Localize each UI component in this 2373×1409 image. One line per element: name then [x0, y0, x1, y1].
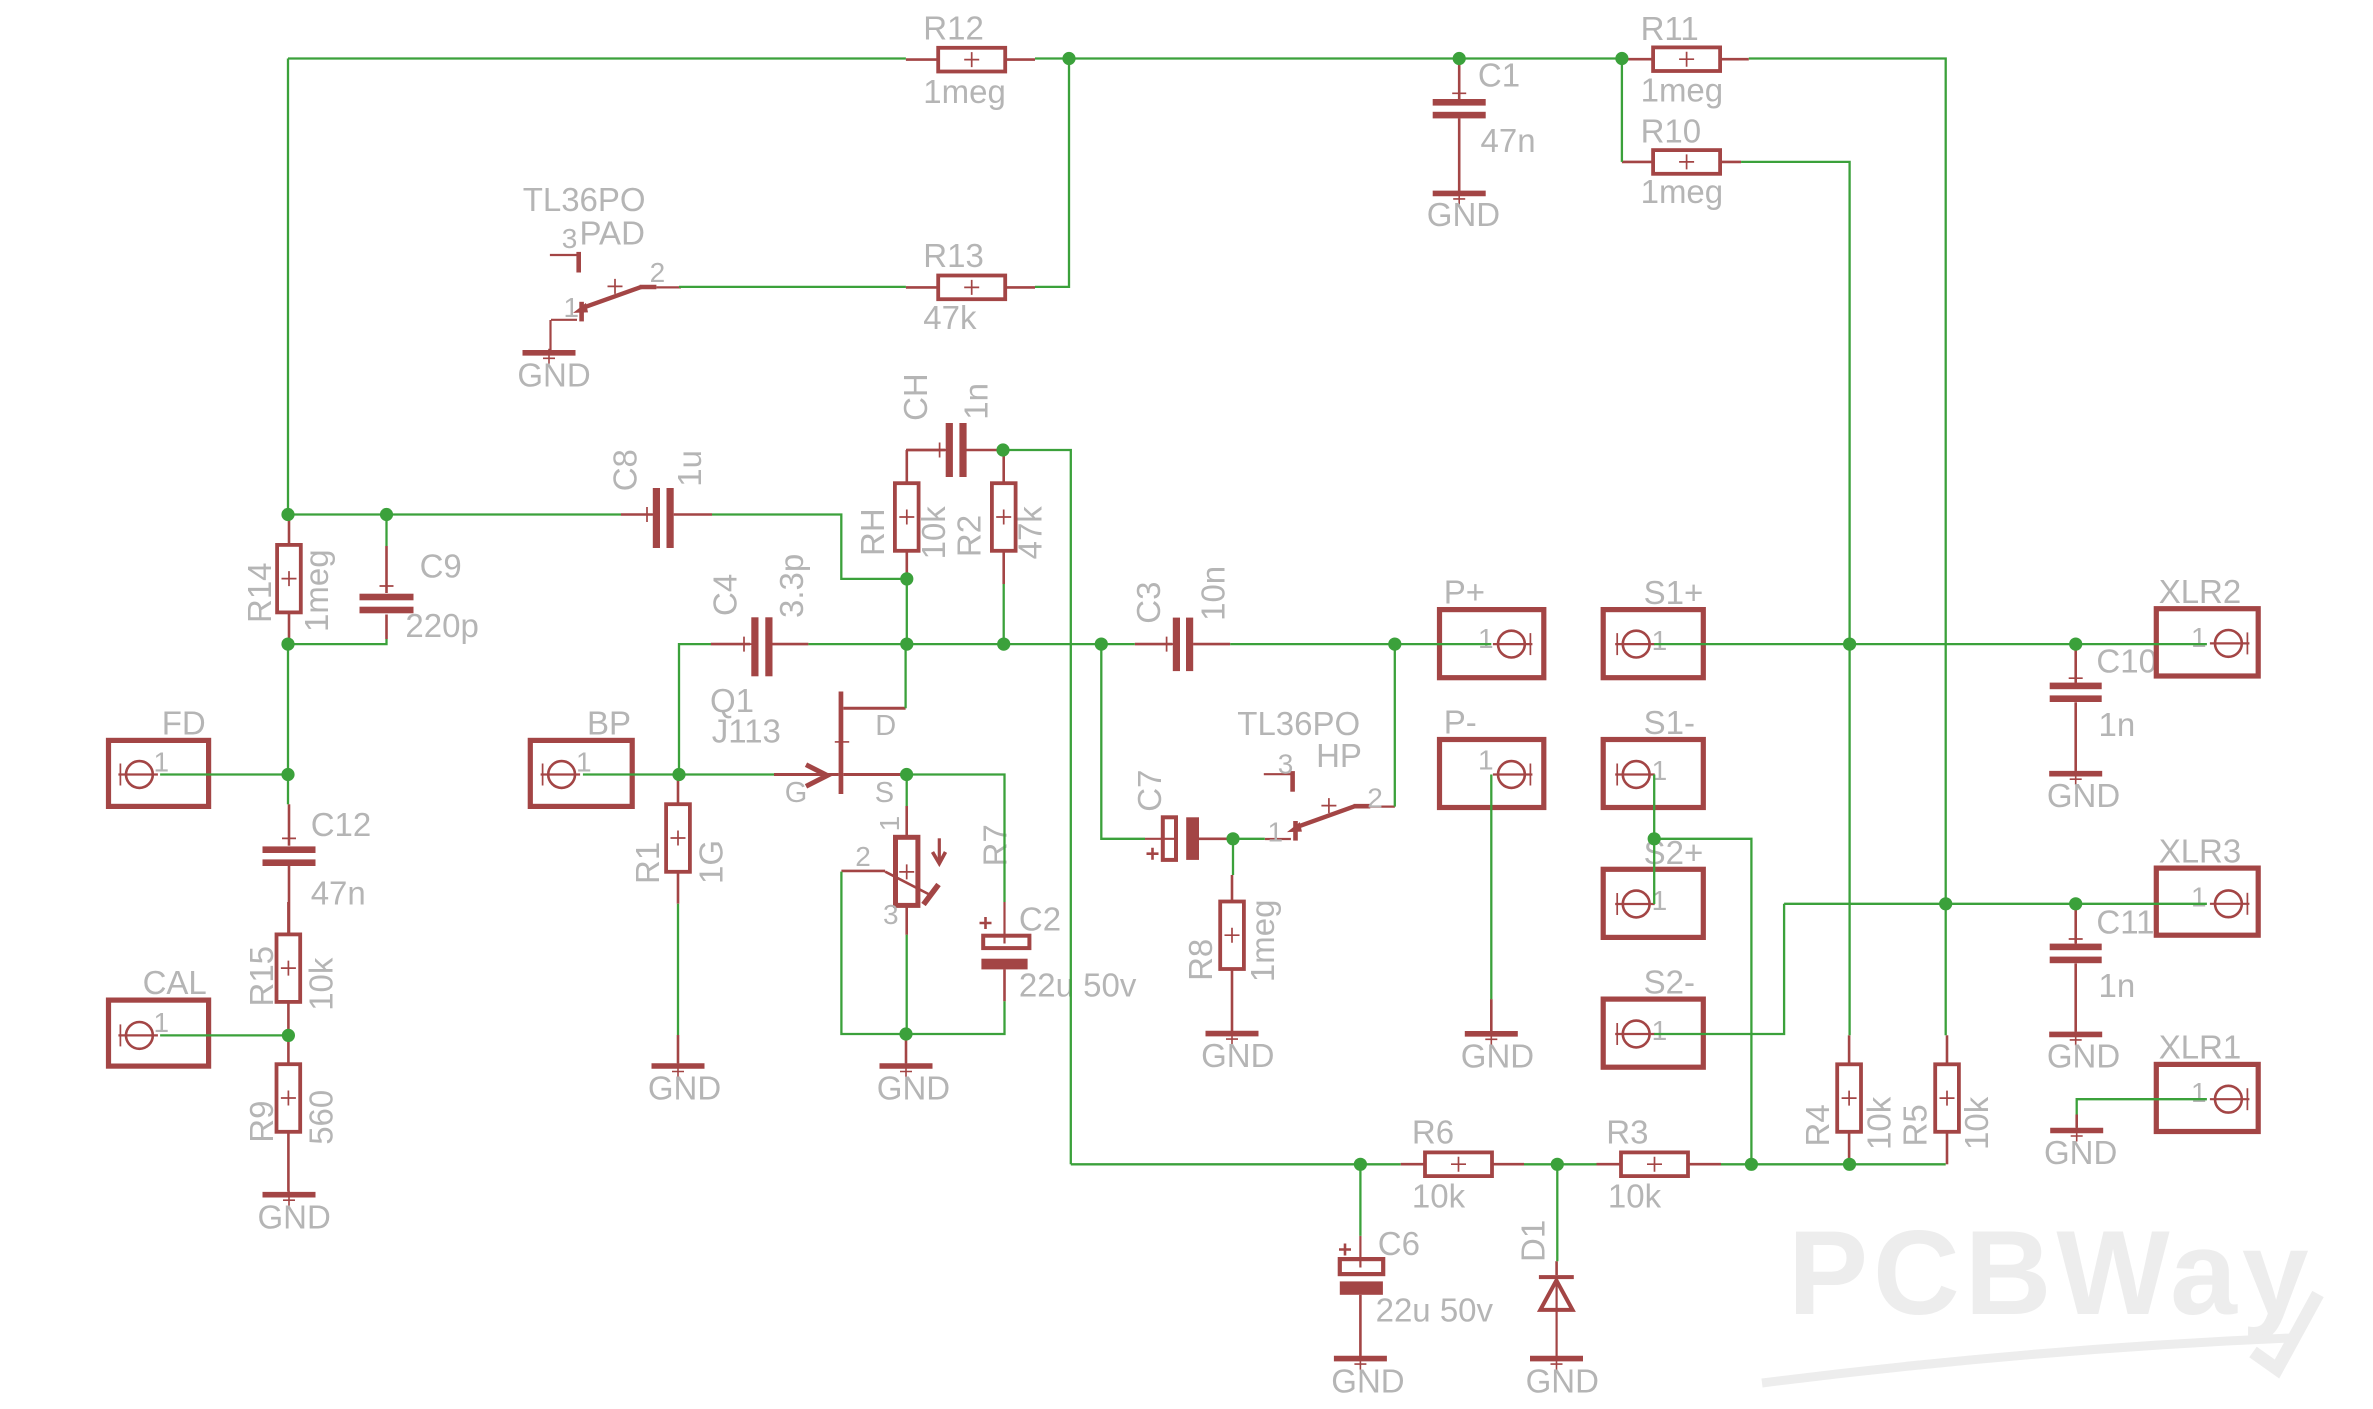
- lead RH pins: [905, 450, 908, 483]
- svg-text:3: 3: [1278, 749, 1294, 780]
- resistor R15: [277, 934, 301, 1002]
- capacitor C9: [360, 594, 414, 601]
- junction 23: [2069, 897, 2082, 910]
- lead R11 pins: [1623, 58, 1653, 61]
- pad XLR3: [2156, 868, 2258, 935]
- lead R3 pins: [1597, 1163, 1621, 1166]
- capacitor C3: [1173, 618, 1180, 672]
- wire R7 pin3 down: [906, 935, 908, 1034]
- svg-text:XLR3: XLR3: [2159, 832, 2242, 869]
- resistor R1: [666, 804, 690, 872]
- svg-text:R14: R14: [241, 562, 278, 623]
- svg-text:GND: GND: [2047, 1038, 2120, 1075]
- svg-text:C3: C3: [1130, 582, 1167, 624]
- svg-text:47n: 47n: [1481, 122, 1536, 159]
- capacitor C1: [1433, 99, 1486, 106]
- switch HP (TL36PO): [1264, 773, 1291, 775]
- svg-text:C12: C12: [311, 806, 372, 843]
- wire C9 top: [385, 515, 387, 547]
- wire FD junction down: [287, 775, 289, 805]
- resistor R10: [1653, 150, 1720, 174]
- svg-text:R1: R1: [629, 842, 666, 884]
- svg-text:GND: GND: [2044, 1134, 2117, 1171]
- wire R1 to ground: [677, 904, 679, 1035]
- capacitor CH: [946, 423, 953, 477]
- pad BP: [530, 740, 632, 806]
- svg-text:R3: R3: [1606, 1114, 1648, 1151]
- lead R7 pins: [905, 806, 908, 837]
- ground (C11): [2049, 1032, 2102, 1038]
- wire R11 right to XLR3 column: [1749, 59, 1946, 1036]
- svg-text:10k: 10k: [1412, 1178, 1466, 1215]
- svg-text:R7: R7: [977, 824, 1014, 866]
- svg-text:C11: C11: [2096, 903, 2154, 940]
- svg-text:C10: C10: [2096, 642, 2157, 679]
- svg-text:GND: GND: [877, 1070, 950, 1107]
- junction 18: [1226, 832, 1239, 845]
- svg-text:R8: R8: [1182, 939, 1219, 981]
- lead R9 pins: [287, 1037, 290, 1064]
- wire C7 to HP pin1: [1233, 838, 1265, 840]
- svg-text:C2: C2: [1019, 901, 1061, 938]
- svg-text:3: 3: [562, 223, 578, 254]
- ground (R8): [1206, 1031, 1259, 1037]
- junction 14: [996, 443, 1009, 456]
- svg-text:1: 1: [2191, 882, 2207, 913]
- junction 8: [282, 1029, 295, 1042]
- svg-text:GND: GND: [2047, 777, 2120, 814]
- svg-text:1: 1: [1268, 817, 1284, 848]
- resistor R12: [938, 48, 1005, 72]
- svg-text:G: G: [785, 777, 808, 809]
- svg-text:1meg: 1meg: [923, 73, 1006, 110]
- junction 20: [1843, 638, 1856, 651]
- switch PAD pin 1 to ground lead: [549, 320, 551, 351]
- ground (XLR1): [2050, 1128, 2103, 1134]
- svg-text:GND: GND: [1461, 1038, 1534, 1075]
- svg-text:FD: FD: [162, 704, 206, 741]
- wire junction to R13 column: [1035, 59, 1069, 287]
- svg-text:560: 560: [303, 1090, 340, 1145]
- pad XLR2: [2156, 609, 2258, 676]
- junction 11: [997, 638, 1010, 651]
- wire CH junction right and down: [1006, 450, 1071, 1164]
- junction 5: [380, 508, 393, 521]
- capacitor C11: [2050, 944, 2102, 951]
- wire D1 top: [1556, 1164, 1558, 1261]
- svg-text:1: 1: [1478, 745, 1494, 776]
- wire C7 junction down to R8: [1232, 839, 1234, 875]
- junction 4: [281, 508, 294, 521]
- svg-text:1: 1: [154, 747, 170, 778]
- svg-text:S: S: [875, 777, 894, 809]
- pad S2+: [1603, 869, 1703, 937]
- junction 1: [1062, 52, 1075, 65]
- wire S1+ row to XLR2: [1654, 643, 2207, 645]
- junction 3: [1615, 52, 1628, 65]
- wire CAL to junction: [160, 1034, 288, 1036]
- svg-text:P+: P+: [1444, 574, 1485, 611]
- svg-text:GND: GND: [1201, 1037, 1274, 1074]
- ground (R1): [652, 1063, 705, 1069]
- svg-text:CAL: CAL: [143, 964, 207, 1001]
- svg-text:C9: C9: [420, 548, 462, 585]
- lead R13 pins: [906, 286, 938, 289]
- wire C8 row left: [288, 513, 621, 515]
- junction 21: [2069, 638, 2082, 651]
- ground (C1): [1433, 191, 1486, 197]
- junction 7: [281, 768, 294, 781]
- lead R6 pins: [1401, 1163, 1425, 1166]
- svg-text:3.3p: 3.3p: [773, 554, 810, 618]
- wire FD to junction: [160, 773, 288, 775]
- ground (D1): [1530, 1356, 1583, 1362]
- svg-text:BP: BP: [587, 704, 631, 741]
- lead RH top bend: [907, 449, 945, 452]
- wire P+ junction down to HP pin2: [1394, 644, 1396, 807]
- wire P- down to ground: [1490, 775, 1492, 1000]
- pad P-: [1440, 740, 1544, 808]
- svg-text:2: 2: [650, 257, 666, 288]
- resistor R11: [1653, 47, 1720, 71]
- wire C6 top: [1359, 1164, 1361, 1236]
- wire BP to gate: [583, 773, 774, 775]
- capacitor C7: [1145, 817, 1233, 860]
- capacitor C4: [751, 617, 758, 676]
- wire R11 R10 junction: [1621, 59, 1623, 162]
- svg-text:C7: C7: [1131, 770, 1168, 812]
- svg-text:R12: R12: [923, 10, 984, 47]
- resistor R13: [938, 276, 1005, 300]
- svg-text:PAD: PAD: [580, 215, 645, 252]
- ground (PAD switch): [523, 350, 576, 356]
- svg-text:47k: 47k: [923, 299, 977, 336]
- svg-text:1: 1: [2191, 1077, 2207, 1108]
- svg-text:1meg: 1meg: [298, 549, 335, 632]
- diode D1: [1539, 1261, 1574, 1356]
- wire C2 bottom to junction: [906, 1001, 1005, 1034]
- svg-text:10k: 10k: [1861, 1096, 1898, 1150]
- svg-text:10k: 10k: [303, 957, 340, 1011]
- lead R4 pins: [1848, 1035, 1851, 1064]
- lead R15 pins: [287, 902, 290, 934]
- svg-text:1meg: 1meg: [1641, 173, 1724, 210]
- svg-text:R13: R13: [923, 237, 984, 274]
- wire XLR3 row: [1784, 903, 2207, 905]
- wire C9 bottom to R14: [288, 639, 387, 644]
- svg-text:GND: GND: [517, 357, 590, 394]
- svg-text:1n: 1n: [2099, 706, 2136, 743]
- junction 16: [900, 768, 913, 781]
- wire PAD switch to R13: [679, 286, 906, 288]
- svg-text:GND: GND: [1427, 196, 1500, 233]
- resistor R8: [1220, 902, 1244, 970]
- wire bottom row R6 to R3: [1524, 1163, 1597, 1165]
- svg-text:R11: R11: [1641, 10, 1699, 47]
- svg-text:1: 1: [154, 1007, 170, 1038]
- wire XLR1 to ground: [2077, 1099, 2207, 1114]
- svg-text:C6: C6: [1378, 1225, 1420, 1262]
- junction 25: [1551, 1158, 1564, 1171]
- switch PAD (TL36PO): [550, 254, 577, 256]
- junction 13: [1388, 638, 1401, 651]
- svg-text:S1-: S1-: [1644, 704, 1695, 741]
- pad FD: [109, 740, 209, 806]
- resistor R14: [277, 545, 301, 613]
- lead R1 pins: [677, 775, 680, 805]
- svg-text:1: 1: [1652, 625, 1668, 656]
- capacitor C10: [2050, 683, 2102, 690]
- wire C3 right to P+: [1230, 643, 1491, 645]
- svg-text:R2: R2: [951, 515, 988, 557]
- wire Q1 source right: [907, 775, 1005, 903]
- junction 10: [900, 638, 913, 651]
- svg-text:1: 1: [564, 292, 580, 323]
- svg-text:GND: GND: [648, 1070, 721, 1107]
- wire C8 right to RH bottom: [712, 515, 907, 579]
- svg-text:22u 50v: 22u 50v: [1019, 967, 1137, 1004]
- wire C7 net from junction: [1101, 644, 1145, 839]
- ground (C10): [2049, 771, 2102, 777]
- junction 12: [1095, 638, 1108, 651]
- lead R5 pins: [1946, 1035, 1949, 1064]
- svg-text:22u 50v: 22u 50v: [1376, 1291, 1494, 1328]
- wire left column top: [287, 59, 289, 515]
- svg-text:TL36PO: TL36PO: [523, 181, 646, 218]
- wire C4 left bend: [679, 644, 711, 774]
- svg-text:1: 1: [1652, 1015, 1668, 1046]
- svg-text:R5: R5: [1897, 1104, 1934, 1146]
- wire S1- down through S2+: [1653, 775, 1655, 905]
- pad S1-: [1603, 740, 1703, 808]
- svg-text:3: 3: [883, 899, 899, 930]
- resistor R9: [277, 1064, 301, 1132]
- svg-text:R10: R10: [1641, 113, 1702, 150]
- transistor Q1: [774, 692, 906, 795]
- resistor R2: [992, 483, 1016, 551]
- junction 17: [899, 1027, 912, 1040]
- resistor R4: [1837, 1064, 1861, 1132]
- junction 27: [1843, 1158, 1856, 1171]
- svg-text:R4: R4: [1799, 1104, 1836, 1146]
- svg-text:D: D: [875, 710, 896, 742]
- resistor R3: [1621, 1152, 1688, 1176]
- junction 22: [1939, 897, 1952, 910]
- svg-text:2: 2: [855, 841, 871, 872]
- lead R8 pins: [1231, 875, 1234, 902]
- ground (R7/C2): [880, 1063, 933, 1069]
- pad XLR1: [2156, 1064, 2258, 1131]
- svg-text:10n: 10n: [1195, 566, 1232, 621]
- svg-text:220p: 220p: [405, 607, 478, 644]
- wire C4 row middle: [808, 643, 1134, 645]
- capacitor C12: [263, 846, 316, 853]
- svg-text:S1+: S1+: [1644, 574, 1704, 611]
- svg-text:1: 1: [874, 816, 905, 832]
- wire R10 right to S1+ column: [1741, 162, 1850, 1035]
- PCBWay watermark: [1762, 1206, 2318, 1383]
- svg-text:CH: CH: [897, 373, 934, 421]
- svg-text:47n: 47n: [311, 874, 366, 911]
- svg-text:P-: P-: [1444, 704, 1477, 741]
- resistor R6: [1425, 1152, 1492, 1176]
- wire bottom of R7 to wiper: [841, 872, 906, 1034]
- svg-text:R15: R15: [243, 946, 280, 1007]
- svg-text:1: 1: [576, 747, 592, 778]
- capacitor C8: [653, 488, 660, 548]
- lead R2 pins: [1002, 451, 1005, 483]
- svg-text:1meg: 1meg: [1244, 900, 1281, 983]
- junction 6: [281, 638, 294, 651]
- wire R14 bottom to FD row: [287, 644, 289, 774]
- capacitor C6: [1339, 1236, 1383, 1357]
- svg-text:1meg: 1meg: [1641, 72, 1724, 109]
- svg-text:GND: GND: [258, 1199, 331, 1236]
- wire Q1 source down to R7: [906, 775, 908, 807]
- svg-text:1: 1: [2191, 622, 2207, 653]
- ground (R9): [263, 1192, 316, 1198]
- svg-text:1n: 1n: [958, 383, 995, 420]
- wire bottom row left: [1071, 1163, 1401, 1165]
- wire top net R12 left: [288, 57, 906, 59]
- lead R10 pins: [1622, 161, 1654, 164]
- wire S1- junction right and down: [1654, 839, 1751, 1165]
- svg-text:1n: 1n: [2099, 967, 2136, 1004]
- svg-text:GND: GND: [1331, 1362, 1404, 1399]
- ground (P-): [1465, 1031, 1518, 1037]
- junction 9: [900, 572, 913, 585]
- wire S2- right and up to XLR3 row: [1654, 904, 1784, 1034]
- svg-text:XLR1: XLR1: [2159, 1029, 2242, 1066]
- svg-text:10k: 10k: [915, 506, 952, 560]
- junction 26: [1745, 1158, 1758, 1171]
- svg-text:C4: C4: [707, 574, 744, 616]
- svg-text:1G: 1G: [693, 840, 730, 884]
- wire bottom row R3 to R5: [1721, 1163, 1946, 1165]
- svg-text:47k: 47k: [1012, 506, 1049, 560]
- junction 2: [1453, 52, 1466, 65]
- svg-text:C1: C1: [1478, 56, 1520, 93]
- resistor R5: [1935, 1064, 1959, 1132]
- ground (C6): [1334, 1356, 1387, 1362]
- pad CAL: [109, 1000, 209, 1066]
- potentiometer R7: [841, 837, 945, 905]
- svg-text:D1: D1: [1515, 1220, 1552, 1262]
- svg-text:J113: J113: [712, 712, 781, 749]
- svg-text:R6: R6: [1412, 1114, 1454, 1151]
- junction 19: [1648, 832, 1661, 845]
- svg-text:PCBWay: PCBWay: [1788, 1206, 2314, 1340]
- svg-text:1u: 1u: [671, 450, 708, 487]
- junction 24: [1354, 1158, 1367, 1171]
- svg-text:1: 1: [1478, 623, 1494, 654]
- resistor RH: [895, 483, 919, 551]
- svg-text:R9: R9: [243, 1101, 280, 1143]
- svg-text:XLR2: XLR2: [2159, 573, 2242, 610]
- wire R2 bottom to row: [1003, 584, 1005, 644]
- svg-text:2: 2: [1367, 783, 1383, 814]
- wire top net R12 right to R11: [1035, 57, 1622, 59]
- lead R12 pins: [906, 58, 938, 61]
- wire Q1 drain up: [904, 644, 906, 708]
- svg-text:10k: 10k: [1608, 1178, 1662, 1215]
- pad S2-: [1603, 999, 1703, 1067]
- junction 15: [672, 768, 685, 781]
- lead R14 pins: [288, 517, 291, 545]
- svg-text:C8: C8: [607, 449, 644, 491]
- capacitor C2: [980, 902, 1030, 1001]
- svg-text:GND: GND: [1526, 1362, 1599, 1399]
- pad S1+: [1603, 610, 1703, 678]
- svg-text:RH: RH: [854, 508, 891, 556]
- svg-text:10k: 10k: [1958, 1096, 1995, 1150]
- pad P+: [1440, 610, 1544, 678]
- svg-text:S2-: S2-: [1644, 964, 1695, 1001]
- svg-text:HP: HP: [1316, 737, 1362, 774]
- wire RH bottom to row: [906, 579, 908, 644]
